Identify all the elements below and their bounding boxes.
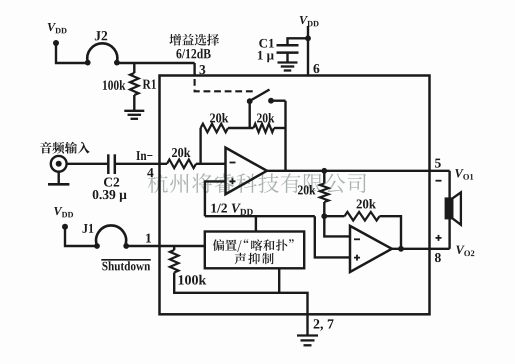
pin 1 label — [146, 234, 151, 243]
wire switch right contact to riser — [271, 99, 286, 101]
wire riser to output — [284, 101, 286, 171]
node VDD shutdown dot — [62, 224, 68, 230]
speaker plus polarity — [436, 235, 442, 241]
wire pin 2-7 to ground — [306, 315, 308, 335]
label 音频输入 audio input — [40, 142, 90, 154]
resistor 100k shutdown lead top — [173, 246, 175, 250]
label VO1 — [455, 169, 463, 177]
pin 2,7 label — [314, 319, 334, 330]
label VO2 — [456, 246, 464, 254]
label gain-select 增益选择 — [169, 34, 219, 46]
ground below C1 — [278, 61, 298, 63]
node VDD top-left junction dot — [53, 40, 59, 46]
node C1 tap dot — [305, 35, 311, 41]
resistor R1 lead top — [133, 63, 135, 73]
speaker LS1 frame — [446, 199, 452, 219]
jumper J2 arc — [87, 43, 117, 62]
label J2 — [95, 31, 107, 40]
resistor 100k shutdown zigzag — [170, 250, 179, 273]
label 20k op2-feedback — [357, 199, 376, 208]
label R1 — [143, 80, 156, 89]
wire rail to op-amp2 plus — [315, 216, 350, 257]
label C2 — [104, 178, 119, 187]
pin 5 label — [435, 159, 441, 168]
label J1 — [83, 224, 94, 233]
input jack center dot — [56, 161, 62, 167]
jumper J2 right contact dot — [114, 60, 120, 66]
resistor 20k feedback-A zigzag — [201, 124, 228, 133]
wire VDD to jumper J2 — [56, 43, 88, 63]
pin 6 label — [313, 64, 319, 73]
wire jack to C2 — [67, 163, 108, 165]
wire J1 to pin 1 — [126, 245, 205, 247]
op-amp U1 plus sign — [230, 178, 236, 184]
node half-VDD junction dot — [321, 213, 327, 219]
op-amp U2 triangle — [350, 226, 392, 272]
label 20k feedback-A — [210, 113, 228, 122]
IC box outline — [160, 76, 430, 315]
node op-amp2 output dot — [398, 246, 404, 252]
label 20k input resistor — [172, 148, 190, 157]
op-amp U2 minus sign — [354, 238, 360, 240]
wire node to op-amp2 minus — [324, 216, 350, 236]
bias block box — [205, 232, 304, 269]
wire 20k op2-feedback to output — [380, 216, 402, 249]
wire C2 to pin 4 — [115, 163, 167, 165]
wire pin8 stub — [430, 248, 450, 250]
wire pin3 into box — [193, 63, 195, 76]
power VDD label (shutdown) — [54, 207, 62, 215]
wire pin5 stub — [430, 170, 450, 172]
wire bias box bottom tap — [278, 268, 280, 293]
watermark text — [148, 173, 366, 193]
node op-amp1 output junction dot — [321, 168, 327, 174]
op-amp U1 triangle — [226, 148, 267, 195]
switch S1 right contact dot — [268, 98, 274, 104]
label C1 — [259, 39, 274, 48]
resistor 20k input zigzag — [167, 160, 196, 169]
resistor 20k op2-feedback zigzag — [345, 212, 380, 221]
speaker LS1 cone — [452, 192, 461, 224]
wire J2 to pin 3 — [117, 62, 195, 64]
label 6/12dB — [176, 49, 210, 59]
label 20k feedback-B — [257, 113, 274, 122]
op-amp U2 plus sign — [354, 255, 360, 261]
label In- — [136, 151, 152, 160]
switch S1 left contact dot — [247, 98, 253, 104]
label 100k shutdown — [179, 275, 207, 285]
bias block text line1 偏置/喀和扑 — [213, 239, 294, 252]
pin 8 label — [435, 253, 441, 262]
jumper J1 right contact dot — [123, 243, 129, 249]
wire node to 20k feedback op2 — [324, 215, 344, 217]
resistor R1 zigzag — [130, 73, 139, 95]
capacitor C1 top plate — [277, 44, 299, 47]
wire 100k to ground rail — [174, 273, 307, 315]
dashed control line from pin 3 — [195, 79, 255, 91]
label 0.39u — [93, 190, 127, 202]
capacitor C1 bottom plate — [277, 51, 299, 54]
resistor 20k middle zigzag — [320, 184, 329, 203]
label 1u — [258, 51, 274, 62]
wire C1 tap — [288, 38, 309, 45]
input jack stem — [58, 172, 60, 185]
resistor 20k middle lead bottom — [323, 202, 325, 216]
jumper J1 arc — [96, 225, 126, 245]
resistor 20k middle lead top — [323, 171, 325, 184]
switch S1 lever — [250, 90, 270, 102]
label Shutdown with overline — [102, 261, 150, 270]
resistor R1 lead bottom — [133, 95, 135, 110]
wire feedback tap vertical — [199, 128, 201, 164]
input jack outer circle — [51, 156, 67, 172]
wire feedback-B to right riser — [274, 127, 286, 129]
capacitor C2 left plate — [107, 154, 110, 174]
jumper J2 left contact dot — [85, 60, 91, 66]
label 100k of R1 — [103, 80, 126, 90]
wire VDD to jumper J1 — [65, 227, 97, 246]
wire VDD to pin 6 — [307, 26, 309, 76]
jumper J1 left contact dot — [94, 243, 100, 249]
wire switch left contact down — [248, 101, 250, 128]
ground below R1 — [124, 110, 144, 112]
resistor 20k feedback-B zigzag — [254, 124, 275, 133]
wire op-amp2 output to pin8 — [392, 248, 430, 250]
wire speaker bottom lead — [448, 218, 450, 249]
label 1/2 VDD — [211, 204, 227, 213]
wire between feedback resistors — [228, 127, 254, 129]
bias block text line2 声抑制 — [235, 253, 274, 265]
wire 20k to op-amp1 minus — [196, 163, 226, 165]
capacitor C1 lead — [286, 53, 288, 62]
wire op-amp1 output to pin5 — [267, 170, 430, 172]
op-amp U1 minus sign — [230, 162, 236, 164]
wire rail tap to bias box — [255, 216, 257, 231]
power VDD label (top right) — [300, 16, 308, 24]
wire half-VDD rail — [205, 215, 315, 217]
wire speaker top lead — [448, 171, 450, 199]
speaker minus polarity — [436, 180, 442, 182]
ground symbol pin 2-7 — [297, 334, 318, 336]
input jack ground bar — [48, 183, 69, 186]
pin 4 label — [147, 168, 153, 177]
pin 3 label — [200, 65, 206, 74]
wire op-amp1 plus input — [205, 181, 226, 216]
capacitor C2 right plate — [114, 154, 117, 174]
power VDD label (top left) — [48, 23, 56, 31]
label 20k middle — [298, 185, 315, 194]
